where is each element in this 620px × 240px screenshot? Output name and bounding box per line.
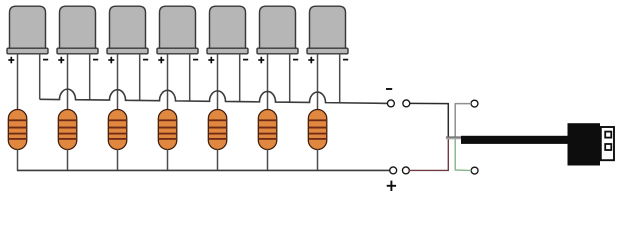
wire: D3 anode lead to R3 — [117, 54, 119, 111]
wire: R3 bottom lead to plus bus — [117, 149, 119, 170]
wire: D7 cathode lead to minus bus — [339, 54, 341, 103]
USB plug contact window top — [605, 132, 611, 138]
wire: D7 anode lead to R7 — [317, 54, 319, 111]
wire: R6 bottom lead to plus bus — [267, 149, 269, 170]
label: D2 plus — [58, 57, 64, 64]
LED D4 — [157, 6, 198, 54]
LED D7 — [307, 6, 348, 54]
wire: D2 cathode lead to minus bus — [89, 54, 91, 100]
label: D7 plus — [308, 57, 314, 64]
wire: black USB negative wire from minus terminal to cable junction — [410, 103, 449, 136]
label: D1 plus — [8, 57, 14, 64]
label: D6 plus — [258, 57, 264, 64]
wire: D3 cathode lead to minus bus — [139, 54, 141, 101]
label: plus terminal — [387, 181, 396, 191]
label: D4 plus — [158, 57, 164, 64]
wire: D5 anode lead to R5 — [217, 54, 219, 111]
label: minus terminal — [386, 88, 392, 90]
LED D2 — [57, 6, 98, 54]
resistor R7 — [308, 110, 327, 150]
wire: R7 bottom lead to plus bus — [317, 149, 319, 170]
node: plus terminal circle left — [390, 167, 397, 174]
wire: gray/white USB data wire from its terminal to cable junction — [455, 104, 471, 137]
resistor R5 — [208, 110, 227, 150]
USB plug contact window bottom — [605, 144, 611, 150]
label: D4 minus — [193, 59, 198, 61]
USB type-A plug body — [568, 123, 601, 165]
wire: R4 bottom lead to plus bus — [167, 149, 169, 170]
wire: D4 cathode lead to minus bus — [189, 54, 191, 101]
label: D5 minus — [243, 59, 248, 61]
label: D7 minus — [343, 59, 348, 61]
wire: R5 bottom lead to plus bus — [217, 149, 219, 170]
label: D5 plus — [208, 57, 214, 64]
wire: D5 cathode lead to minus bus — [239, 54, 241, 102]
resistor R2 — [58, 110, 77, 150]
LED D1 — [7, 6, 48, 54]
wire: R2 bottom lead to plus bus — [67, 149, 69, 170]
resistor R3 — [108, 110, 127, 150]
USB plug metal shield — [601, 127, 614, 160]
LED D5 — [207, 6, 248, 54]
wire: D1 cathode lead to minus bus — [39, 54, 41, 99]
resistor R4 — [158, 110, 177, 150]
label: D3 minus — [143, 59, 148, 61]
wire: red USB +5V wire from plus terminal to cable junction — [409, 138, 448, 170]
wire: R1 bottom lead to plus bus — [17, 149, 19, 170]
wire: D2 anode lead to R2 — [67, 54, 69, 111]
node: minus terminal circle left — [387, 100, 394, 107]
label: D3 plus — [108, 57, 114, 64]
resistor R6 — [258, 110, 277, 150]
node: plus terminal circle right — [402, 167, 409, 174]
wire: D1 anode lead to R1 — [17, 54, 19, 111]
label: D2 minus — [93, 59, 98, 61]
LED D3 — [107, 6, 148, 54]
label: D1 minus — [43, 59, 48, 61]
wire: plus bus from R1 to plus terminal — [17, 169, 390, 171]
node: minus terminal circle right — [403, 100, 410, 107]
label: D6 minus — [293, 59, 298, 61]
wire: D6 anode lead to R6 — [267, 54, 269, 111]
wire: green USB data wire from cable junction to its terminal — [455, 138, 471, 170]
node: USB white wire terminal circle — [471, 100, 478, 107]
node: USB green data wire terminal circle — [471, 167, 478, 174]
wire: D4 anode lead to R4 — [167, 54, 169, 111]
wire: cable junction bundle — [446, 136, 461, 138]
wire: minus bus from D1 cathode to minus terminal, hops over anode leads — [40, 89, 388, 103]
LED D6 — [257, 6, 298, 54]
wire: USB cable — [461, 136, 568, 144]
wire: D6 cathode lead to minus bus — [289, 54, 291, 102]
resistor R1 — [8, 110, 27, 150]
